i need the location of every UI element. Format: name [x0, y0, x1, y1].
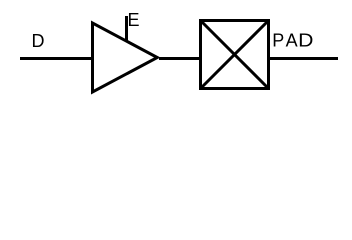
svg-text:A: A — [286, 31, 298, 51]
svg-text:E: E — [128, 10, 140, 30]
pin E (enable pin stub on buffer top edge) — [125, 16, 128, 42]
wire: pad to external pin on right — [270, 57, 338, 60]
node PAD (pad net label) — [272, 31, 313, 51]
node E (enable net label) — [128, 10, 140, 30]
node D (input net label) — [32, 31, 45, 51]
wire: input net D from left to buffer input — [20, 57, 93, 60]
pad symbol P1 diagonal 2 — [201, 21, 269, 89]
pad symbol P1 (square outline) — [201, 21, 269, 89]
pad symbol P1 diagonal 1 — [201, 21, 269, 89]
svg-text:D: D — [298, 31, 313, 51]
svg-text:D: D — [32, 31, 45, 51]
tri-state buffer U1 (triangle) — [93, 23, 158, 92]
svg-text:P: P — [272, 31, 284, 51]
wire: buffer output to pad symbol — [159, 57, 200, 60]
